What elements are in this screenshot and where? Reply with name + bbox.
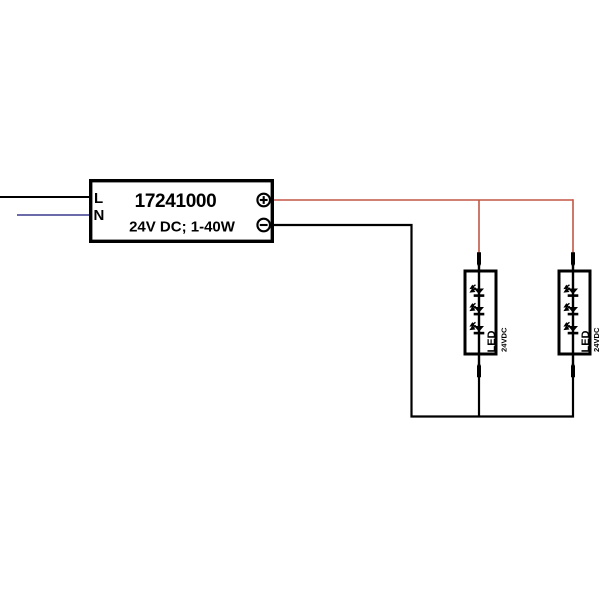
terminal - (minus output) bbox=[257, 219, 270, 232]
internal wire module 1 bbox=[478, 266, 480, 364]
LED D1a bbox=[471, 285, 485, 297]
module 2 housing box bbox=[559, 271, 590, 354]
connector pin bottom module 1 bbox=[477, 363, 481, 377]
svg-text:24VDC: 24VDC bbox=[592, 327, 600, 352]
internal wire module 2 bbox=[572, 266, 574, 364]
connector pin top module 2 bbox=[571, 252, 575, 266]
svg-text:LED: LED bbox=[486, 330, 498, 352]
LED D2a bbox=[565, 285, 579, 297]
module 1 housing box bbox=[465, 271, 496, 354]
svg-text:24V DC; 1-40W: 24V DC; 1-40W bbox=[129, 219, 236, 236]
wire red drop to LED module 1 bbox=[478, 200, 480, 253]
terminal + (plus output) bbox=[257, 194, 270, 207]
wire 0V return black from minus terminal bbox=[274, 225, 573, 417]
svg-text:N: N bbox=[94, 207, 105, 224]
svg-text:LED: LED bbox=[580, 330, 592, 352]
svg-text:17241000: 17241000 bbox=[135, 191, 217, 212]
svg-text:L: L bbox=[94, 190, 103, 207]
svg-text:24VDC: 24VDC bbox=[500, 327, 509, 352]
LED D2c bbox=[565, 322, 579, 334]
wire N mains neutral input (blue) bbox=[17, 214, 90, 216]
wire L mains live input (black) bbox=[0, 196, 90, 198]
wire red drop to LED module 2 bbox=[572, 199, 574, 253]
LED D1b bbox=[471, 303, 485, 315]
LED D1c bbox=[471, 322, 485, 334]
wire +24V red horizontal bbox=[274, 199, 573, 201]
LED D2b bbox=[565, 303, 579, 315]
LED module 1 bbox=[465, 252, 509, 377]
LED module 2 bbox=[559, 252, 600, 377]
connector pin top module 1 bbox=[477, 252, 481, 266]
wire LED module 1 bottom lead to return bbox=[478, 377, 480, 418]
connector pin bottom module 2 bbox=[571, 363, 575, 377]
LED driver U1 box bbox=[91, 181, 273, 242]
